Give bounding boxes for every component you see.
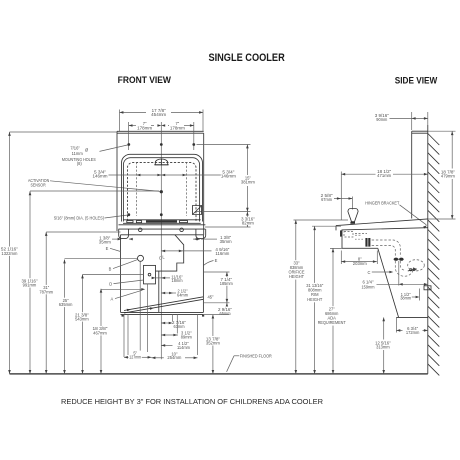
svg-text:SIDE VIEW: SIDE VIEW bbox=[395, 76, 438, 86]
svg-text:471mm: 471mm bbox=[377, 173, 392, 178]
svg-text:159mm: 159mm bbox=[362, 284, 376, 289]
svg-text:11mm: 11mm bbox=[72, 151, 84, 156]
svg-text:REQUIREMENT: REQUIREMENT bbox=[318, 320, 346, 325]
svg-text:185mm: 185mm bbox=[220, 281, 234, 286]
svg-text:479mm: 479mm bbox=[441, 173, 456, 178]
svg-text:454mm: 454mm bbox=[151, 112, 167, 117]
svg-text:178mm: 178mm bbox=[137, 125, 153, 130]
svg-text:381mm: 381mm bbox=[241, 180, 256, 185]
svg-text:787mm: 787mm bbox=[39, 289, 53, 294]
svg-text:467mm: 467mm bbox=[93, 330, 107, 335]
svg-text:90mm: 90mm bbox=[376, 117, 388, 122]
svg-text:116mm: 116mm bbox=[215, 251, 230, 256]
svg-text:(8): (8) bbox=[77, 161, 83, 166]
svg-text:63mm: 63mm bbox=[174, 324, 186, 329]
svg-text:65mm: 65mm bbox=[220, 311, 232, 316]
svg-text:D: D bbox=[109, 281, 112, 286]
svg-text:E: E bbox=[106, 246, 109, 251]
svg-text:635mm: 635mm bbox=[59, 302, 73, 307]
svg-text:FINISHED FLOOR: FINISHED FLOOR bbox=[240, 353, 272, 358]
svg-text:SINGLE COOLER: SINGLE COOLER bbox=[208, 52, 284, 64]
svg-text:146mm: 146mm bbox=[93, 174, 109, 179]
svg-text:1322mm: 1322mm bbox=[1, 251, 18, 256]
svg-text:35mm: 35mm bbox=[220, 239, 233, 244]
svg-text:FRONT VIEW: FRONT VIEW bbox=[118, 75, 172, 85]
svg-text:172mm: 172mm bbox=[406, 330, 420, 335]
svg-text:89mm: 89mm bbox=[181, 335, 193, 340]
svg-text:HEIGHT: HEIGHT bbox=[307, 297, 322, 302]
svg-text:SENSOR: SENSOR bbox=[31, 182, 46, 187]
svg-text:313mm: 313mm bbox=[376, 345, 390, 350]
svg-text:A: A bbox=[111, 296, 114, 301]
svg-text:203mm: 203mm bbox=[353, 261, 368, 266]
svg-text:352mm: 352mm bbox=[206, 340, 221, 345]
svg-text:991mm: 991mm bbox=[23, 283, 37, 288]
svg-text:5/16" (8mm) DIA. (5 HOLES): 5/16" (8mm) DIA. (5 HOLES) bbox=[54, 216, 105, 221]
svg-text:C: C bbox=[368, 270, 371, 275]
svg-text:543mm: 543mm bbox=[75, 317, 89, 322]
svg-text:HEIGHT: HEIGHT bbox=[289, 274, 304, 279]
svg-text:178mm: 178mm bbox=[170, 125, 186, 130]
svg-text:254mm: 254mm bbox=[167, 355, 182, 360]
svg-text:114mm: 114mm bbox=[177, 345, 191, 350]
svg-text:64mm: 64mm bbox=[177, 293, 189, 298]
svg-text:45°: 45° bbox=[207, 295, 214, 300]
svg-text:127mm: 127mm bbox=[129, 354, 142, 359]
svg-text:E: E bbox=[215, 258, 218, 263]
svg-text:82mm: 82mm bbox=[242, 221, 255, 226]
svg-text:38mm: 38mm bbox=[400, 296, 412, 301]
svg-text:B: B bbox=[109, 266, 112, 271]
svg-text:67mm: 67mm bbox=[321, 197, 333, 202]
svg-text:HINGER BRACKET: HINGER BRACKET bbox=[365, 201, 399, 206]
svg-text:7/16": 7/16" bbox=[70, 145, 80, 150]
svg-text:REDUCE HEIGHT BY 3" FOR INSTAL: REDUCE HEIGHT BY 3" FOR INSTALLATION OF … bbox=[61, 397, 324, 406]
svg-text:35mm: 35mm bbox=[99, 239, 112, 244]
svg-text:18mm: 18mm bbox=[172, 278, 184, 283]
svg-text:146mm: 146mm bbox=[221, 174, 237, 179]
